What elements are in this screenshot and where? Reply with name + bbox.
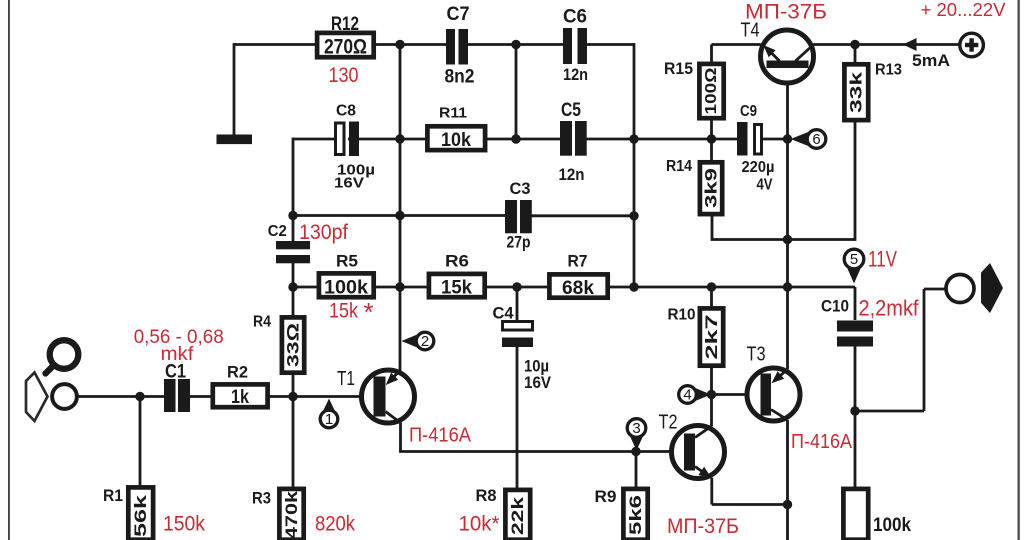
svg-text:22k: 22k [508,496,527,535]
svg-text:C5: C5 [561,100,581,121]
svg-text:mkf: mkf [161,343,195,365]
svg-text:11V: 11V [868,247,897,272]
svg-text:T3: T3 [747,344,766,366]
svg-text:R11: R11 [439,105,467,122]
svg-text:П-416А: П-416А [791,431,853,453]
svg-text:*: * [363,297,373,327]
svg-text:16V: 16V [334,175,364,191]
svg-text:270Ω: 270Ω [324,36,367,59]
svg-text:R8: R8 [476,486,497,505]
svg-text:C4: C4 [493,304,515,323]
svg-text:15k: 15k [329,300,358,323]
svg-text:R13: R13 [875,62,902,79]
svg-text:R1: R1 [103,486,123,505]
svg-text:820k: 820k [315,513,355,536]
svg-text:C8: C8 [336,103,356,120]
svg-text:6: 6 [812,131,820,148]
svg-text:15k: 15k [441,278,472,299]
svg-text:12n: 12n [563,65,588,84]
svg-text:R2: R2 [227,363,248,382]
svg-text:150k: 150k [163,513,205,536]
svg-text:130pf: 130pf [299,221,348,244]
svg-text:27p: 27p [507,234,531,252]
svg-text:130: 130 [329,64,359,87]
svg-text:100k: 100k [324,278,368,299]
svg-text:5mA: 5mA [912,51,950,70]
svg-text:R12: R12 [331,14,359,35]
svg-text:МП-37Б: МП-37Б [745,1,827,24]
svg-text:3: 3 [632,420,640,437]
svg-text:10k*: 10k* [459,513,500,536]
svg-text:8n2: 8n2 [445,67,475,88]
svg-text:56k: 56k [131,494,150,537]
svg-text:4V: 4V [757,177,773,194]
svg-text:470k: 470k [282,490,301,539]
svg-text:16V: 16V [524,373,552,392]
svg-text:МП-37Б: МП-37Б [667,515,739,538]
svg-text:R6: R6 [445,252,469,271]
svg-text:2,2mkf: 2,2mkf [859,296,920,321]
svg-text:C9: C9 [740,103,757,120]
svg-text:2: 2 [421,333,429,350]
svg-text:33k: 33k [847,71,866,113]
svg-text:R3: R3 [252,489,271,508]
svg-text:C10: C10 [821,298,849,316]
svg-text:12n: 12n [559,165,585,184]
svg-text:5: 5 [850,251,858,268]
svg-text:68k: 68k [562,278,594,299]
svg-text:100k: 100k [873,515,911,536]
svg-text:T1: T1 [337,368,355,390]
svg-text:R9: R9 [595,487,617,506]
svg-text:R14: R14 [666,158,692,175]
svg-text:1: 1 [325,411,333,428]
svg-text:220µ: 220µ [742,159,775,176]
svg-text:C7: C7 [447,4,470,25]
svg-text:10k: 10k [441,130,471,151]
svg-text:+ 20...22V: + 20...22V [921,0,1007,20]
svg-text:R15: R15 [664,59,693,78]
svg-text:T2: T2 [659,412,678,434]
svg-text:5k6: 5k6 [626,495,645,535]
svg-text:C6: C6 [563,7,587,28]
svg-text:R5: R5 [336,252,358,271]
svg-text:R4: R4 [253,314,271,331]
svg-text:1k: 1k [231,387,249,408]
svg-text:4: 4 [683,387,691,404]
svg-text:3k9: 3k9 [702,168,721,208]
svg-text:C3: C3 [510,180,531,198]
svg-text:R7: R7 [568,252,588,271]
svg-text:П-416А: П-416А [409,425,472,447]
svg-text:R10: R10 [668,307,696,324]
svg-text:100Ω: 100Ω [703,67,720,114]
svg-text:C2: C2 [268,223,287,240]
svg-text:33Ω: 33Ω [284,323,303,367]
svg-text:2k7: 2k7 [702,315,721,360]
